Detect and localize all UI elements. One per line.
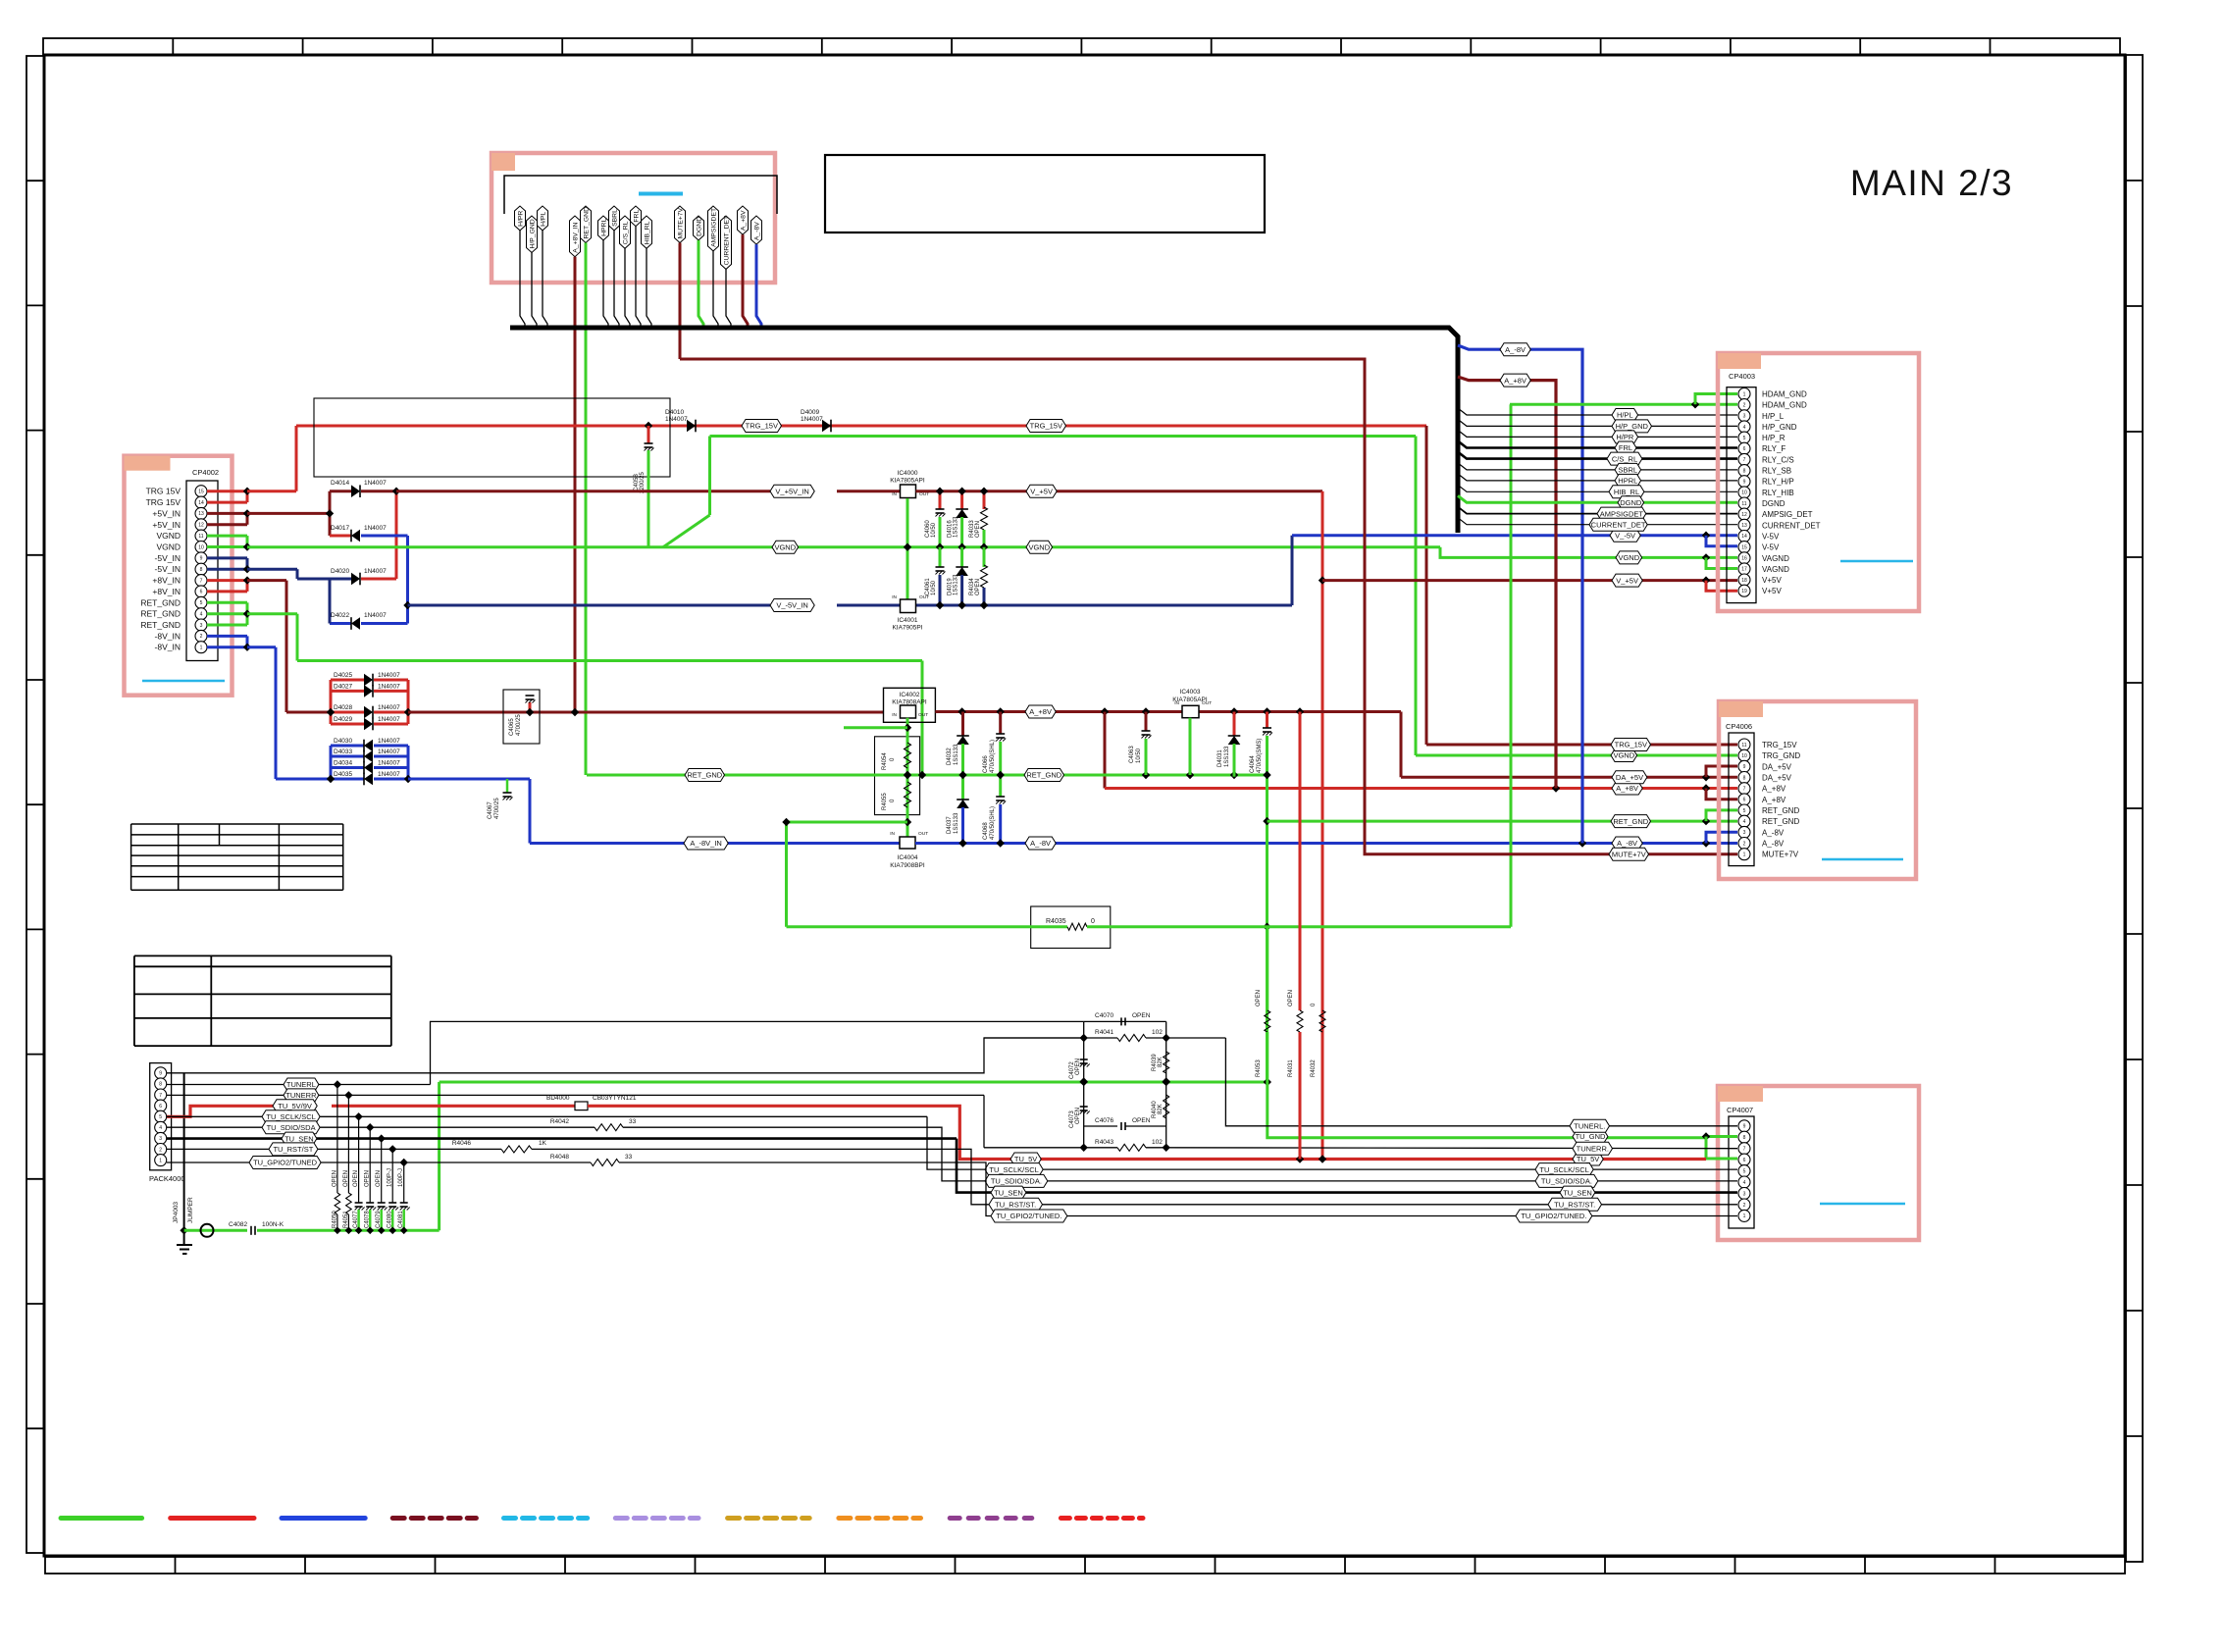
svg-text:A_-8V: A_-8V (1617, 839, 1637, 848)
svg-text:H/P_L: H/P_L (1762, 412, 1785, 421)
svg-text:8: 8 (1743, 775, 1746, 781)
svg-text:RET_GND: RET_GND (1762, 817, 1799, 826)
svg-text:D4029: D4029 (334, 716, 353, 723)
svg-text:1: 1 (1743, 852, 1746, 858)
svg-text:-5V_IN: -5V_IN (155, 564, 181, 574)
svg-text:6: 6 (1743, 1158, 1746, 1163)
svg-text:R4054: R4054 (882, 752, 888, 770)
svg-text:H/PL: H/PL (1617, 411, 1633, 420)
svg-text:2: 2 (1743, 402, 1746, 408)
svg-text:10: 10 (198, 544, 204, 550)
svg-text:DGND: DGND (696, 217, 702, 236)
svg-text:1N4007: 1N4007 (364, 480, 387, 487)
svg-text:1SS133: 1SS133 (1224, 746, 1230, 767)
svg-text:C4070: C4070 (1095, 1012, 1114, 1019)
svg-text:9: 9 (200, 556, 203, 562)
svg-text:OPEN: OPEN (975, 521, 981, 538)
svg-text:TUNERL.: TUNERL. (1574, 1122, 1605, 1131)
svg-text:RET_GND: RET_GND (1762, 806, 1799, 815)
svg-text:TUNERR: TUNERR (285, 1091, 317, 1100)
svg-text:5: 5 (1743, 436, 1746, 441)
svg-text:A_-8V_IN: A_-8V_IN (690, 839, 722, 848)
svg-text:IN: IN (1174, 700, 1179, 706)
svg-text:DGND: DGND (1620, 498, 1642, 507)
svg-text:14: 14 (1741, 534, 1747, 540)
svg-text:1N4007: 1N4007 (378, 771, 400, 778)
svg-text:10/50: 10/50 (931, 522, 937, 538)
svg-text:JP4003: JP4003 (173, 1202, 180, 1223)
svg-text:R4031: R4031 (1288, 1059, 1294, 1077)
svg-text:D4010: D4010 (665, 409, 685, 416)
svg-text:MAIN 2/3: MAIN 2/3 (1850, 163, 2013, 203)
svg-text:12: 12 (1741, 512, 1747, 518)
svg-text:10/50: 10/50 (1136, 748, 1142, 763)
svg-text:3: 3 (1743, 1191, 1746, 1197)
svg-text:3: 3 (159, 1136, 162, 1142)
svg-text:A_+8V: A_+8V (740, 210, 747, 231)
svg-text:HDAM_GND: HDAM_GND (1762, 390, 1807, 399)
svg-text:7: 7 (1743, 787, 1746, 793)
svg-text:TU_SDIO/SDA.: TU_SDIO/SDA. (991, 1177, 1042, 1186)
svg-text:10/50: 10/50 (931, 580, 937, 595)
svg-text:D4035: D4035 (334, 771, 353, 778)
svg-text:H/PR: H/PR (517, 211, 524, 227)
svg-text:7: 7 (1743, 457, 1746, 463)
svg-text:TU_SCLK/SCL: TU_SCLK/SCL (266, 1112, 315, 1121)
svg-text:RET_GND: RET_GND (140, 609, 181, 619)
svg-text:C4077: C4077 (353, 1211, 359, 1228)
svg-text:H/P_GND: H/P_GND (529, 219, 536, 248)
svg-text:R4032: R4032 (1311, 1059, 1317, 1077)
svg-text:17: 17 (1741, 567, 1747, 573)
svg-text:2: 2 (1743, 841, 1746, 847)
svg-text:TU_SCLK/SCL: TU_SCLK/SCL (1539, 1165, 1588, 1174)
svg-text:DA_+5V: DA_+5V (1616, 773, 1643, 782)
svg-text:IN: IN (890, 831, 895, 837)
svg-text:OPEN: OPEN (1256, 990, 1262, 1007)
svg-text:D4027: D4027 (334, 683, 353, 690)
svg-text:+8V_IN: +8V_IN (152, 587, 181, 596)
svg-text:TU_RST/ST: TU_RST/ST (273, 1145, 313, 1154)
svg-text:9: 9 (159, 1071, 162, 1077)
svg-text:TU_RST/ST.: TU_RST/ST. (995, 1201, 1036, 1210)
svg-text:4: 4 (1743, 1180, 1746, 1186)
svg-text:V_-5V: V_-5V (1615, 531, 1635, 540)
svg-text:OPEN: OPEN (1132, 1012, 1151, 1019)
svg-text:C/S_RL: C/S_RL (1612, 454, 1637, 463)
svg-text:D4037: D4037 (947, 816, 953, 834)
svg-text:100P-J: 100P-J (388, 1168, 393, 1187)
svg-text:A_-8V: A_-8V (1762, 840, 1785, 849)
svg-text:A_+8V: A_+8V (1616, 784, 1638, 793)
svg-text:13: 13 (198, 511, 204, 517)
svg-text:SBRL: SBRL (611, 209, 618, 227)
svg-text:A_+8V_IN: A_+8V_IN (572, 222, 579, 252)
svg-text:V-5V: V-5V (1762, 533, 1780, 542)
svg-text:VAGND: VAGND (1762, 565, 1789, 574)
svg-text:1N4007: 1N4007 (378, 672, 400, 679)
svg-text:OPEN: OPEN (332, 1170, 337, 1187)
svg-text:FRL: FRL (1619, 443, 1632, 452)
svg-text:HIB_RL: HIB_RL (644, 221, 650, 244)
svg-text:TRG_15V: TRG_15V (746, 422, 778, 431)
svg-text:OUT: OUT (1202, 700, 1212, 706)
svg-text:13: 13 (1741, 523, 1747, 529)
svg-text:5: 5 (159, 1114, 162, 1120)
svg-text:D4030: D4030 (334, 738, 353, 745)
svg-text:IC4004: IC4004 (898, 854, 918, 861)
svg-text:V-5V: V-5V (1762, 543, 1780, 552)
svg-text:3: 3 (1743, 830, 1746, 836)
svg-text:1N4007: 1N4007 (378, 716, 400, 723)
svg-text:-8V_IN: -8V_IN (155, 643, 181, 652)
svg-text:A_-8V: A_-8V (753, 222, 760, 240)
svg-text:TU_SEN: TU_SEN (1563, 1188, 1592, 1197)
svg-text:16: 16 (1741, 556, 1747, 562)
svg-text:4: 4 (1743, 425, 1746, 431)
svg-text:1K: 1K (539, 1140, 547, 1147)
svg-text:0: 0 (1091, 918, 1095, 925)
svg-text:14: 14 (198, 500, 204, 506)
svg-text:VGND: VGND (156, 531, 181, 541)
svg-text:TU_GND: TU_GND (1576, 1132, 1606, 1141)
svg-text:RET_GND: RET_GND (583, 207, 590, 239)
svg-text:8: 8 (200, 567, 203, 573)
svg-text:CB03YTYN121: CB03YTYN121 (593, 1095, 637, 1102)
svg-text:1N4007: 1N4007 (665, 416, 688, 423)
svg-text:R4042: R4042 (550, 1118, 570, 1125)
svg-text:A_-8V: A_-8V (1762, 828, 1785, 837)
svg-text:11: 11 (1741, 743, 1746, 749)
svg-text:RET_GND: RET_GND (1026, 771, 1061, 780)
svg-text:FRL: FRL (633, 210, 640, 223)
svg-text:D4022: D4022 (331, 612, 350, 619)
svg-text:HIB_RL: HIB_RL (1614, 488, 1639, 496)
svg-text:9: 9 (1743, 480, 1746, 486)
svg-text:DGND: DGND (1762, 499, 1785, 508)
svg-text:OPEN: OPEN (376, 1170, 382, 1187)
svg-text:C4081: C4081 (398, 1211, 404, 1228)
svg-text:8: 8 (1743, 1135, 1746, 1141)
svg-text:CP4002: CP4002 (192, 468, 219, 477)
svg-text:18: 18 (1741, 578, 1747, 584)
svg-text:TU_5V: TU_5V (1577, 1155, 1599, 1163)
svg-text:KIA7805API: KIA7805API (890, 478, 925, 485)
svg-text:4: 4 (200, 612, 203, 618)
svg-text:2: 2 (1743, 1203, 1746, 1209)
svg-text:MUTE+7V: MUTE+7V (1762, 851, 1799, 859)
svg-text:H/PL: H/PL (540, 212, 546, 227)
svg-text:33: 33 (629, 1118, 637, 1125)
svg-text:1SS133: 1SS133 (954, 744, 959, 765)
svg-text:TRG 15V: TRG 15V (146, 487, 181, 496)
svg-text:C4082: C4082 (229, 1221, 248, 1228)
svg-text:A_-8V: A_-8V (1030, 839, 1051, 848)
svg-text:V_-5V_IN: V_-5V_IN (776, 601, 808, 610)
svg-text:C4079: C4079 (376, 1211, 382, 1228)
svg-text:OPEN: OPEN (1075, 1108, 1081, 1124)
svg-text:2: 2 (159, 1147, 162, 1153)
svg-text:1N4007: 1N4007 (364, 612, 387, 619)
svg-text:5: 5 (1743, 808, 1746, 814)
svg-text:VGND: VGND (156, 542, 181, 552)
svg-text:KIA7908BPI: KIA7908BPI (890, 862, 925, 869)
svg-text:1N4007: 1N4007 (364, 568, 387, 575)
svg-text:RET_GND: RET_GND (687, 771, 722, 780)
svg-text:HDAM_GND: HDAM_GND (1762, 401, 1807, 410)
svg-text:TU_RST/ST.: TU_RST/ST. (1554, 1201, 1595, 1210)
svg-text:AMPSIG_DET: AMPSIG_DET (1762, 510, 1813, 519)
svg-text:470/50(SHL): 470/50(SHL) (990, 740, 996, 773)
svg-text:OPEN: OPEN (975, 579, 981, 595)
svg-text:BD4000: BD4000 (546, 1095, 570, 1102)
svg-text:TU_5V: TU_5V (1014, 1155, 1037, 1163)
svg-text:82K: 82K (1158, 1104, 1164, 1114)
svg-text:TU_GPIO2/TUNED.: TU_GPIO2/TUNED. (996, 1212, 1061, 1220)
svg-text:RET_GND: RET_GND (140, 620, 181, 630)
svg-text:9: 9 (1743, 1124, 1746, 1130)
svg-text:3: 3 (1743, 414, 1746, 420)
svg-text:1N4007: 1N4007 (378, 738, 400, 745)
svg-text:7: 7 (200, 578, 203, 584)
svg-text:RLY_HIB: RLY_HIB (1762, 489, 1794, 497)
svg-text:OPEN: OPEN (343, 1170, 349, 1187)
svg-text:CP4007: CP4007 (1727, 1106, 1753, 1114)
svg-text:R4046: R4046 (452, 1140, 472, 1147)
svg-text:8: 8 (159, 1082, 162, 1088)
svg-text:D4014: D4014 (331, 480, 350, 487)
svg-text:A_-8V: A_-8V (1505, 345, 1526, 354)
svg-text:C4066: C4066 (983, 755, 989, 773)
svg-text:15: 15 (198, 490, 204, 495)
svg-text:-5V_IN: -5V_IN (155, 553, 181, 563)
svg-text:CP4006: CP4006 (1726, 722, 1752, 731)
svg-text:19: 19 (1741, 589, 1747, 594)
svg-text:TRG_15V: TRG_15V (1030, 422, 1062, 431)
svg-text:IN: IN (892, 594, 897, 600)
svg-text:V_+5V: V_+5V (1030, 487, 1053, 495)
svg-text:10: 10 (1741, 490, 1747, 496)
svg-text:+8V_IN: +8V_IN (152, 576, 181, 586)
svg-text:A_+8V: A_+8V (1029, 707, 1052, 716)
svg-text:33: 33 (625, 1154, 633, 1161)
svg-text:H/P_GND: H/P_GND (1616, 422, 1649, 431)
svg-text:IC4000: IC4000 (898, 470, 918, 477)
svg-text:R4035: R4035 (1046, 918, 1066, 925)
svg-text:IC4001: IC4001 (898, 617, 918, 624)
svg-text:C/S_RL: C/S_RL (622, 221, 629, 244)
svg-text:AMPSIGDET: AMPSIGDET (1600, 509, 1644, 518)
svg-text:1N4007: 1N4007 (378, 704, 400, 711)
svg-text:470/50(SMS): 470/50(SMS) (1257, 739, 1263, 773)
svg-text:7: 7 (1743, 1147, 1746, 1153)
svg-text:11: 11 (198, 534, 203, 540)
svg-text:RLY_H/P: RLY_H/P (1762, 478, 1794, 487)
svg-text:R4053: R4053 (1256, 1059, 1262, 1077)
svg-text:TU_SCLK/SCL: TU_SCLK/SCL (989, 1165, 1038, 1174)
svg-text:C4076: C4076 (1095, 1117, 1114, 1124)
svg-text:VGND: VGND (1618, 553, 1639, 562)
svg-text:DA_+5V: DA_+5V (1762, 762, 1792, 771)
svg-text:6: 6 (200, 590, 203, 595)
svg-text:C4080: C4080 (388, 1211, 393, 1228)
svg-text:9: 9 (1743, 764, 1746, 770)
svg-text:1N4007: 1N4007 (364, 525, 387, 532)
svg-text:7: 7 (159, 1093, 162, 1099)
svg-text:D4034: D4034 (334, 760, 353, 767)
svg-text:1: 1 (200, 645, 203, 651)
svg-text:TUNERR.: TUNERR. (1577, 1144, 1609, 1153)
svg-text:TU_5V/9V: TU_5V/9V (278, 1102, 312, 1110)
svg-text:A_+8V: A_+8V (1762, 796, 1786, 804)
svg-text:HPRL: HPRL (1618, 477, 1637, 486)
svg-text:4: 4 (159, 1125, 162, 1131)
svg-text:5: 5 (200, 600, 203, 606)
svg-text:8: 8 (1743, 468, 1746, 474)
svg-text:2: 2 (200, 634, 203, 640)
svg-text:RLY_SB: RLY_SB (1762, 467, 1791, 476)
svg-text:IC4003: IC4003 (1180, 689, 1201, 696)
svg-text:102: 102 (1152, 1029, 1163, 1036)
svg-text:C4067: C4067 (488, 801, 493, 819)
svg-text:TRG_15V: TRG_15V (1762, 741, 1797, 749)
svg-text:100P-J: 100P-J (398, 1168, 404, 1187)
svg-text:1: 1 (159, 1158, 162, 1163)
svg-text:H/PR: H/PR (1616, 433, 1634, 441)
svg-text:-8V_IN: -8V_IN (155, 631, 181, 641)
svg-text:102: 102 (1152, 1139, 1163, 1146)
svg-text:OPEN: OPEN (1288, 990, 1294, 1007)
svg-text:H/P_GND: H/P_GND (1762, 423, 1797, 432)
svg-text:D4009: D4009 (801, 409, 820, 416)
svg-text:1SS133: 1SS133 (954, 574, 959, 595)
svg-text:VAGND: VAGND (1762, 554, 1789, 563)
svg-text:R4055: R4055 (882, 793, 888, 810)
svg-text:1N4007: 1N4007 (378, 749, 400, 755)
svg-text:D4025: D4025 (334, 672, 353, 679)
svg-text:DA_+5V: DA_+5V (1762, 774, 1792, 783)
svg-text:PACK4000: PACK4000 (149, 1174, 185, 1183)
svg-text:1SS133: 1SS133 (954, 516, 959, 538)
svg-text:TU_GPIO2/TUNED: TU_GPIO2/TUNED (253, 1159, 318, 1167)
svg-text:TU_SDIO/SDA: TU_SDIO/SDA (267, 1123, 316, 1132)
svg-text:C4065: C4065 (509, 718, 515, 736)
svg-text:D4033: D4033 (334, 749, 353, 755)
svg-text:HPRL: HPRL (600, 219, 607, 236)
svg-text:6: 6 (1743, 446, 1746, 452)
svg-text:C4068: C4068 (983, 822, 989, 840)
svg-text:4700/25: 4700/25 (494, 798, 500, 819)
svg-text:11: 11 (1741, 501, 1746, 507)
svg-text:IN: IN (892, 712, 897, 718)
svg-text:VGND: VGND (1028, 542, 1050, 551)
svg-text:R4048: R4048 (550, 1154, 570, 1161)
svg-text:SBRL: SBRL (1619, 466, 1638, 475)
svg-text:15: 15 (1741, 544, 1747, 550)
svg-text:10: 10 (1741, 753, 1747, 759)
svg-text:5: 5 (1743, 1168, 1746, 1174)
svg-text:VGND: VGND (1613, 751, 1634, 760)
svg-text:TUNERL: TUNERL (286, 1080, 316, 1089)
svg-text:KIA7905PI: KIA7905PI (892, 625, 922, 632)
svg-text:V+5V: V+5V (1762, 587, 1782, 595)
svg-text:A_+8V: A_+8V (1762, 785, 1786, 794)
svg-text:A_+8V: A_+8V (1504, 376, 1526, 385)
svg-text:CURRENT_DET: CURRENT_DET (1591, 520, 1646, 529)
svg-text:CURRENT_DET: CURRENT_DET (1762, 521, 1821, 530)
svg-text:OPEN: OPEN (353, 1170, 359, 1187)
svg-text:6: 6 (1743, 798, 1746, 803)
svg-text:C4064: C4064 (1250, 755, 1256, 773)
svg-text:470/50(SHL): 470/50(SHL) (990, 806, 996, 840)
svg-text:TRG 15V: TRG 15V (146, 497, 181, 507)
svg-text:6: 6 (159, 1104, 162, 1110)
svg-text:TRG_15V: TRG_15V (1615, 741, 1647, 749)
svg-text:V+5V: V+5V (1762, 576, 1782, 585)
svg-text:JUMPER: JUMPER (187, 1197, 194, 1223)
svg-text:R4043: R4043 (1095, 1139, 1114, 1146)
svg-text:TU_SDIO/SDA.: TU_SDIO/SDA. (1541, 1177, 1592, 1186)
svg-text:RLY_C/S: RLY_C/S (1762, 455, 1794, 464)
svg-text:OUT: OUT (918, 712, 928, 718)
svg-text:82K: 82K (1158, 1057, 1164, 1067)
svg-text:1N4007: 1N4007 (378, 760, 400, 767)
svg-text:R4051: R4051 (343, 1211, 349, 1228)
svg-text:IN: IN (892, 491, 897, 497)
svg-text:OPEN: OPEN (365, 1170, 371, 1187)
svg-text:IC4002: IC4002 (900, 692, 920, 698)
svg-text:C4063: C4063 (1129, 746, 1135, 763)
svg-text:D4031: D4031 (1217, 749, 1223, 767)
svg-text:R4041: R4041 (1095, 1029, 1114, 1036)
svg-text:+5V_IN: +5V_IN (152, 520, 181, 530)
svg-text:1N4007: 1N4007 (801, 416, 823, 423)
svg-text:100N-K: 100N-K (262, 1221, 285, 1228)
svg-text:+5V_IN: +5V_IN (152, 508, 181, 518)
svg-text:4: 4 (1743, 819, 1746, 825)
svg-text:1: 1 (1743, 391, 1746, 397)
svg-text:TRG_GND: TRG_GND (1762, 751, 1800, 760)
svg-text:1SS133: 1SS133 (954, 812, 959, 834)
svg-text:D4028: D4028 (334, 704, 353, 711)
svg-text:R4050: R4050 (332, 1211, 337, 1228)
svg-text:OPEN: OPEN (1132, 1117, 1151, 1124)
svg-text:OUT: OUT (918, 831, 928, 837)
svg-text:1: 1 (1743, 1213, 1746, 1219)
svg-text:CP4003: CP4003 (1729, 372, 1755, 381)
svg-text:3: 3 (200, 623, 203, 629)
svg-text:TU_GPIO2/TUNED.: TU_GPIO2/TUNED. (1521, 1212, 1586, 1220)
svg-text:4700/25: 4700/25 (516, 714, 522, 736)
svg-text:H/P_R: H/P_R (1762, 434, 1785, 442)
svg-text:MUTE+7V: MUTE+7V (677, 207, 684, 238)
svg-text:12: 12 (198, 523, 204, 529)
svg-text:1N4007: 1N4007 (378, 683, 400, 690)
svg-text:V_+5V: V_+5V (1616, 576, 1638, 585)
svg-text:D4032: D4032 (947, 748, 953, 765)
svg-text:TU_SEN: TU_SEN (994, 1188, 1023, 1197)
svg-text:D4020: D4020 (331, 568, 350, 575)
svg-text:OPEN: OPEN (1075, 1058, 1081, 1075)
svg-text:AMPSIGDET: AMPSIGDET (710, 208, 717, 247)
svg-text:CURRENT_DET: CURRENT_DET (723, 216, 730, 266)
svg-text:RET_GND: RET_GND (140, 597, 181, 607)
svg-text:D4017: D4017 (331, 525, 350, 532)
svg-text:V_+5V_IN: V_+5V_IN (775, 487, 808, 495)
svg-text:RLY_F: RLY_F (1762, 444, 1785, 453)
svg-text:RET_GND: RET_GND (1613, 817, 1648, 826)
svg-text:C4078: C4078 (365, 1211, 371, 1228)
